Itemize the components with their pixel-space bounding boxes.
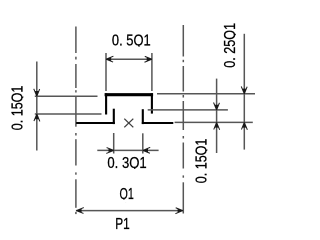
dimension 0.3Q1: extension line left — [113, 133, 115, 154]
dimension 0.15Q1 right: lower arrowhead (points up) — [214, 122, 220, 129]
dimension 0.25Q1 right: extension line crown-top level — [157, 93, 255, 95]
dimension 0.5Q1: right arrowhead — [145, 56, 152, 62]
dimension Q1/P1: right arrowhead — [175, 208, 182, 214]
profile right flange — [142, 122, 174, 124]
dimension 0.25Q1 / 0.15Q1 right: extension line flange level — [175, 121, 253, 123]
dimension 0.3Q1: left arrowhead (points right) — [106, 148, 113, 154]
dimension 0.15Q1 right: upper arrowhead (points down) — [214, 103, 220, 110]
profile right inner web — [142, 109, 144, 124]
dimension 0.15Q1 right: extension line inner-web-top level — [148, 109, 228, 111]
centerline left seam (vertical dash-dot) — [75, 27, 77, 215]
profile left inner web — [113, 109, 115, 124]
svg-text:0. 3Q1: 0. 3Q1 — [107, 155, 146, 172]
dimension 0.5Q1: extension line right — [151, 53, 153, 91]
profile right outer web — [151, 93, 153, 113]
dimension 0.15Q1 left: dimension line — [36, 62, 38, 151]
dimension 0.3Q1: extension line right — [142, 133, 144, 153]
dimension 0.15Q1 right: dimension line — [216, 79, 218, 153]
dimension 0.15Q1 left: extension line top (crown underside) — [35, 95, 98, 97]
dimension Q1/P1: dimension line — [76, 210, 183, 212]
dimension 0.15Q1 left: extension line bottom (web end) — [35, 113, 102, 115]
dimension 0.25Q1 right: lower arrowhead (points up) — [241, 122, 247, 129]
dimension 0.15Q1 left: upper arrowhead (points down) — [34, 89, 40, 96]
dimension 0.5Q1: dimension line — [106, 58, 152, 60]
profile left outer web — [105, 93, 107, 114]
centroid X mark — [124, 119, 133, 128]
dimension 0.15Q1 left: lower arrowhead (points up) — [34, 114, 40, 121]
centerline right seam (vertical dash-dot) — [182, 25, 184, 214]
dimension 0.5Q1: left arrowhead — [106, 56, 113, 62]
dimension 0.5Q1: extension line left — [105, 53, 107, 91]
dimension 0.3Q1: dimension line — [97, 149, 158, 151]
profile left flange — [76, 122, 115, 124]
dimension Q1/P1: left arrowhead — [76, 208, 83, 214]
svg-text:P1: P1 — [115, 216, 130, 233]
dimension 0.3Q1: right arrowhead (points left) — [143, 147, 150, 153]
dimension 0.25Q1 right: upper arrowhead (points down) — [241, 86, 247, 93]
dimension 0.25Q1 right: dimension line — [243, 34, 245, 150]
profile crown (top flat of hat section) — [105, 93, 154, 96]
